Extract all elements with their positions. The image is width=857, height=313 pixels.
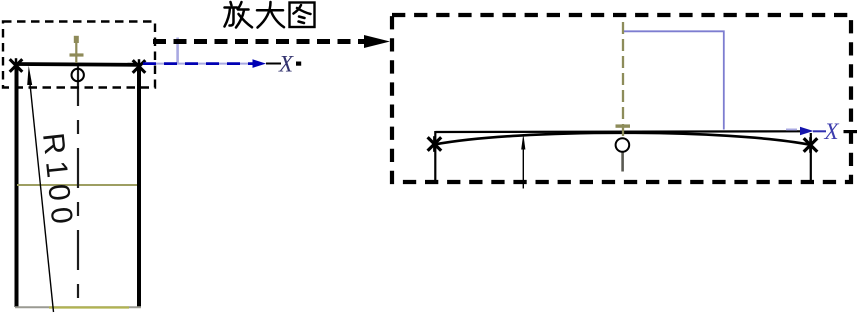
- wire vertical dashed centerline: [77, 66, 79, 302]
- wire part left edge: [15, 63, 19, 307]
- origin circle: [72, 69, 84, 81]
- wire sketch X axis (detail view): [786, 127, 826, 135]
- wire small black dash after X: [296, 62, 301, 66]
- svg-text:R100: R100: [36, 131, 79, 232]
- 放: [225, 2, 253, 28]
- 大: [257, 2, 284, 28]
- wire straight chord line: [436, 130, 801, 133]
- wire part bottom back edge (gray): [15, 306, 141, 308]
- label X (detail axis): [824, 119, 840, 144]
- 图: [290, 3, 315, 28]
- node detail right endpoint marker: [804, 137, 818, 153]
- wire sketch bottom line (olive): [49, 306, 129, 308]
- wire lavender tick: [176, 38, 179, 65]
- origin circle (detail): [616, 138, 630, 152]
- wire blue measurement L: [624, 31, 724, 129]
- wire mid horizontal olive line: [17, 184, 137, 186]
- node detail left endpoint marker: [428, 136, 442, 152]
- detail-view dashed arrow: [153, 35, 390, 48]
- wire magnified R100 arc: [436, 133, 811, 145]
- wire olive centerline (detail): [616, 22, 631, 172]
- wire sketch X axis (left view): [143, 59, 281, 68]
- wire radius leader line: [30, 84, 54, 312]
- radius leader arrowhead: [27, 66, 32, 86]
- label 放大图 (hand-drawn glyphs): [225, 2, 315, 28]
- svg-text:X: X: [824, 119, 840, 144]
- svg-text:X: X: [278, 52, 294, 77]
- detail view dashed box: [392, 15, 851, 182]
- label X (left view axis): [278, 52, 294, 77]
- label R100 (rotated): [36, 131, 79, 232]
- axis symbol (olive) above top edge: [70, 36, 84, 63]
- wire right vertical edge (detail): [810, 133, 812, 184]
- wire part top edge: [14, 62, 141, 67]
- node top-left endpoint marker: [10, 58, 23, 73]
- wire small black dash after X (detail): [844, 130, 857, 133]
- detail selection dashed box: [3, 22, 155, 88]
- up arrow (detail): [521, 134, 525, 189]
- node top-right endpoint marker: [133, 59, 146, 74]
- wire left vertical edge (detail): [434, 131, 436, 184]
- wire part right edge: [137, 63, 141, 307]
